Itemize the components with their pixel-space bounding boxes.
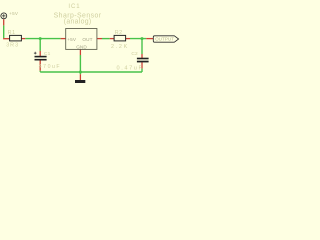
wire: +5V symbol down to corner (net VCC) — [3, 25, 5, 38]
power symbol +5V circle — [1, 13, 7, 19]
junction node at C2 branch — [141, 37, 144, 40]
wire: R2 to output — [130, 38, 146, 40]
pin: R2 right pin — [126, 38, 130, 40]
pin: ground symbol pin — [79, 74, 81, 80]
svg-text:OUTPUT: OUTPUT — [155, 37, 174, 42]
svg-text:C1: C1 — [44, 51, 51, 57]
pin: IC +5V pin — [61, 38, 66, 40]
wire: C2 bottom to ground rail corner — [141, 69, 143, 72]
resistor R1 body — [10, 35, 22, 41]
svg-text:3R3: 3R3 — [6, 43, 19, 49]
capacitor C2 plates — [137, 58, 149, 60]
wire: bottom ground rail — [40, 71, 142, 73]
svg-text:+5V: +5V — [9, 11, 19, 16]
pin: +5V symbol pin — [3, 19, 5, 25]
svg-text:0.47uF: 0.47uF — [117, 65, 144, 71]
C1 polarity plus mark — [34, 52, 37, 55]
wire stub to OUTPUT flag — [146, 38, 153, 40]
wire: IC to R2 — [102, 38, 110, 40]
pin: IC OUT pin — [97, 38, 102, 40]
svg-text:OUT: OUT — [82, 37, 92, 42]
pin: C2 top pin — [141, 54, 143, 58]
pin: IC GND pin — [79, 49, 81, 55]
pin: R1 left pin — [3, 38, 9, 40]
wire: branch down to C2 — [141, 39, 143, 54]
pin: C1 top pin — [39, 51, 41, 56]
svg-text:R2: R2 — [115, 30, 123, 36]
svg-text:(analog): (analog) — [64, 19, 92, 26]
op IC1 box outline — [66, 29, 97, 50]
svg-text:470uF: 470uF — [39, 64, 61, 70]
capacitor C1 plates (polarized) — [35, 56, 47, 58]
OUTPUT net flag outline — [153, 36, 178, 42]
svg-text:GND: GND — [76, 45, 87, 50]
junction node at ground rail crossing — [79, 71, 82, 74]
ground symbol bar — [75, 80, 85, 83]
wire: C1 bottom corner to ground rail — [39, 71, 41, 72]
wire: branch down to C1 — [39, 39, 41, 51]
svg-text:IC1: IC1 — [68, 4, 80, 10]
pin: C1 bottom pin — [39, 60, 41, 71]
wire: R1 to IC — [25, 38, 60, 40]
junction node at C1 branch — [39, 37, 42, 40]
pin: C2 bottom pin — [141, 62, 143, 68]
svg-text:2.2K: 2.2K — [111, 44, 129, 50]
svg-text:C2: C2 — [131, 51, 138, 57]
pin: R1 right pin — [22, 38, 26, 40]
pin: R2 left pin — [110, 38, 114, 40]
svg-text:R1: R1 — [8, 30, 16, 36]
resistor R2 body — [114, 35, 126, 41]
wire: GND pin to rail and below — [79, 55, 81, 74]
background — [0, 0, 180, 83]
svg-text:+5V: +5V — [67, 37, 77, 42]
